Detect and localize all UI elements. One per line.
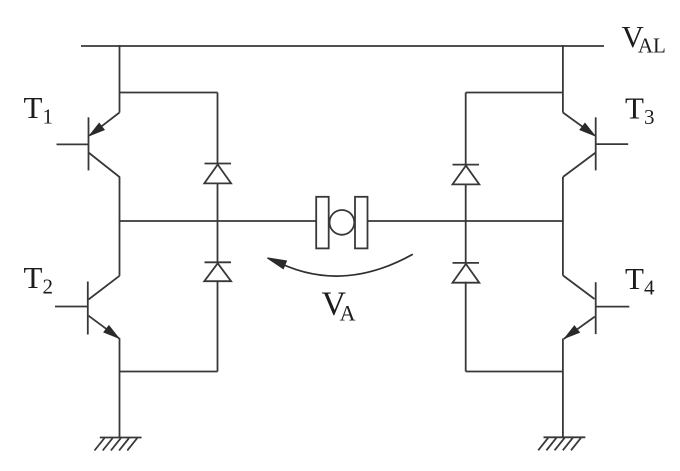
- wire: T3 collector to mid node: [562, 177, 564, 222]
- wire: mid node down to T4 collector: [562, 221, 564, 275]
- svg-text:T1: T1: [24, 90, 53, 129]
- wire: right branch to diode chain: [466, 92, 563, 94]
- wire: left diode chain lower segment: [217, 281, 219, 372]
- svg-text:VAL: VAL: [622, 19, 666, 58]
- transistor T1 (PNP, upper left): [57, 113, 120, 178]
- arrow: T3 emitter arrowhead (points into bar): [580, 123, 595, 135]
- ground (right): [538, 437, 585, 450]
- svg-text:T3: T3: [625, 91, 654, 130]
- transistor T2 (NPN, lower left): [55, 276, 120, 339]
- wire: right diode chain middle segment: [465, 184, 467, 263]
- ground (left): [95, 438, 142, 451]
- motor M (armature with brushes): [316, 197, 367, 249]
- svg-text:T4: T4: [625, 261, 655, 300]
- svg-text:VA: VA: [322, 285, 356, 325]
- diode D3 (upper right, pointing up): [453, 165, 480, 185]
- arrow: T2 emitter arrowhead (points away from bar): [104, 326, 119, 338]
- transistor T4 (NPN, lower right): [563, 275, 629, 339]
- wire: T4 emitter down to ground: [562, 339, 564, 438]
- diode D4 (lower right, pointing up): [453, 263, 480, 283]
- wire: bottom left link (diode chain to emitter): [120, 371, 218, 373]
- wire: right supply drop to T3 emitter: [562, 45, 564, 113]
- arrow: T1 emitter arrowhead (points into bar): [90, 123, 105, 135]
- arrow: T4 emitter arrowhead (points away from bar): [565, 326, 580, 338]
- diode D1 (upper left, pointing up): [204, 164, 231, 184]
- wire: right diode chain lower segment: [465, 282, 467, 372]
- wire: mid rail left (motor left lead): [120, 220, 317, 222]
- wire: left diode chain middle segment: [217, 184, 219, 263]
- wire: mid node down to T2 collector: [119, 221, 121, 276]
- arrow: VA rotation arc: [273, 254, 413, 276]
- diode D2 (lower left, pointing up): [204, 262, 231, 281]
- svg-text:T2: T2: [24, 260, 53, 299]
- wire: T2 emitter down to ground: [119, 338, 121, 437]
- wire: left branch to diode chain: [120, 92, 218, 94]
- wire: left diode chain upper segment: [217, 93, 219, 164]
- wire: right diode chain upper segment: [465, 93, 467, 165]
- wire: T1 collector to mid node: [119, 177, 121, 222]
- wire: top supply rail VAL: [81, 45, 604, 47]
- transistor T3 (PNP, upper right): [563, 113, 628, 178]
- wire: bottom right link (diode chain to emitter): [466, 371, 563, 373]
- wire: mid rail right (motor right lead): [368, 220, 563, 222]
- wire: left supply drop to T1 emitter: [119, 45, 121, 113]
